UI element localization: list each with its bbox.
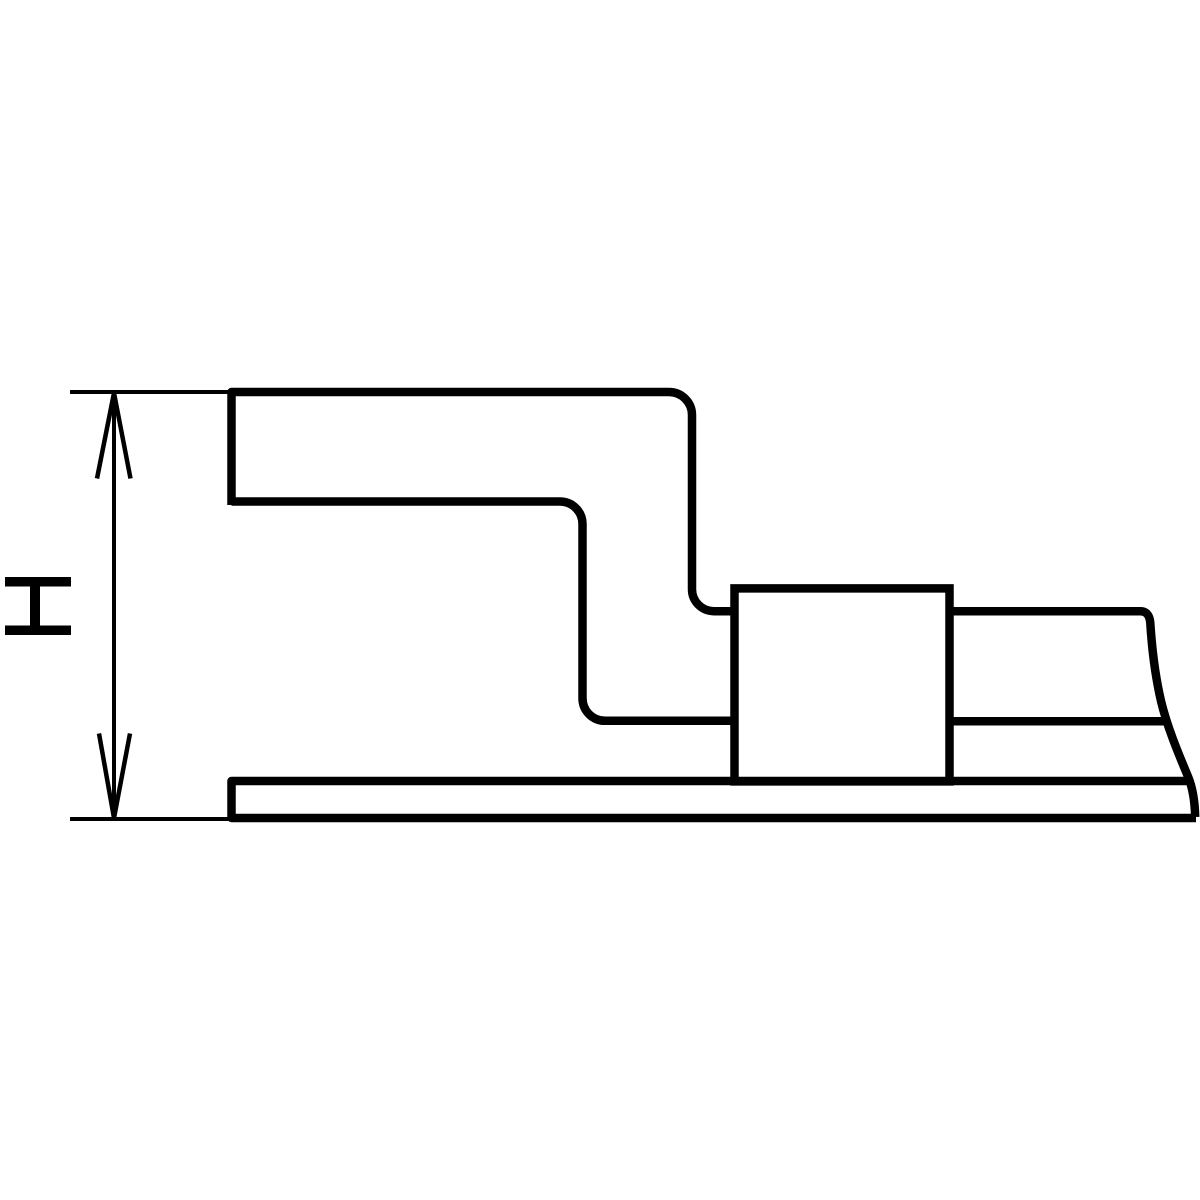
arrowhead top: [97, 393, 131, 479]
label H (rotated 90°): [5, 577, 71, 635]
extension line bottom: [70, 817, 232, 821]
part outline upper chain: [232, 392, 734, 611]
base bar: [232, 781, 1197, 818]
dimension line H: [112, 393, 116, 818]
part outline step chain: [232, 502, 734, 721]
arrowhead bottom: [99, 734, 130, 819]
extension line top: [70, 390, 232, 394]
right section top line with break curve: [950, 611, 1196, 817]
right section middle line: [950, 717, 1167, 726]
clamp block (box): [735, 588, 950, 781]
